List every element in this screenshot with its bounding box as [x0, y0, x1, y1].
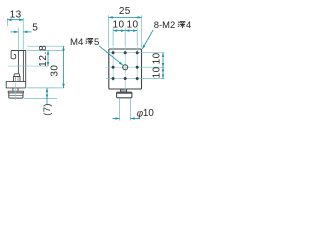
M2 hole top-center — [124, 51, 127, 54]
side view: knob axis centerline — [14, 83, 16, 101]
M2 hole mid-left — [112, 66, 115, 69]
front view: knob body — [117, 92, 132, 98]
dimension 10/10 top: right segment with arrows — [125, 30, 137, 32]
dimension 10/10 right: extension lines — [143, 53, 165, 79]
leader line for M4 tapped hole — [99, 46, 123, 65]
side view: clamp bolt head dome — [14, 74, 19, 77]
leader line for 8-M2 tapped holes — [142, 30, 153, 49]
dimension 30: dimension line with arrows — [63, 46, 65, 88]
side view: knob body — [9, 93, 23, 98]
dimension 12.8: top extension line — [27, 50, 64, 52]
side view: plate rear face edge — [22, 51, 24, 82]
svg-text:M4: M4 — [70, 37, 84, 48]
dimension 5: right outside arrow and leader to text — [23, 31, 31, 33]
M2 hole top-left — [112, 51, 115, 54]
dimension phi10: extension lines — [120, 98, 131, 120]
dimension 25: dimension line with arrows — [109, 16, 142, 18]
dimension phi10: left outside arrow — [112, 118, 119, 120]
label M4 depth 5 — [70, 37, 99, 48]
svg-text:10: 10 — [113, 20, 125, 31]
M4 center hole circle — [123, 65, 128, 70]
dimension 10/10 top: extension lines — [113, 28, 137, 46]
side view: knob flange — [8, 91, 23, 93]
side view: M4 hole axis centerline — [8, 65, 49, 67]
side view: base block outline — [6, 82, 26, 88]
side view: knob knurl line — [9, 94, 23, 96]
dimension (7): leader to text — [46, 99, 48, 105]
dimension 13: dimension line with arrows — [7, 19, 23, 21]
dimension 10/10 right: upper segment with arrows — [162, 53, 164, 67]
M2 hole bottom-right — [136, 77, 139, 80]
dimension 30: extension lines — [27, 46, 64, 88]
dimension text phi10 — [137, 108, 155, 119]
svg-text:10: 10 — [127, 20, 139, 31]
dimension 10/10 right: lower segment with arrows — [162, 67, 164, 78]
dimension 5: extension lines — [17, 28, 19, 50]
svg-text:10: 10 — [151, 52, 162, 64]
svg-text:12.8: 12.8 — [38, 45, 49, 67]
svg-text:10: 10 — [151, 66, 162, 78]
front view: hole column centerlines — [113, 47, 137, 92]
M2 hole bottom-left — [112, 77, 115, 80]
front view: knob neck — [121, 89, 127, 92]
front view: knob top band — [117, 93, 132, 94]
dimension 5: left outside arrow — [11, 31, 19, 33]
svg-text:25: 25 — [119, 6, 131, 17]
side view: plate front face edge — [17, 51, 19, 74]
dimension (7): bottom extension line — [24, 98, 57, 100]
front view: plate square outline — [109, 49, 142, 89]
side view: knob neck — [13, 88, 18, 91]
svg-text:10: 10 — [143, 108, 154, 119]
side view: right wall of body — [25, 51, 27, 88]
side view: clamp bolt hex facet lines — [16, 77, 19, 82]
M2 hole mid-right — [136, 66, 139, 69]
dimension 25: extension lines — [109, 15, 142, 47]
M2 hole top-right — [136, 51, 139, 54]
label 8-M2 depth 4 — [154, 19, 191, 30]
dimension phi10: right outside arrow and tail — [131, 118, 141, 120]
svg-text:4: 4 — [186, 19, 191, 30]
svg-text:5: 5 — [32, 23, 38, 34]
dimension 13: extension lines — [7, 18, 23, 50]
svg-text:30: 30 — [50, 65, 61, 77]
front view: hole row centerlines — [106, 53, 145, 79]
M2 hole bottom-center — [124, 77, 127, 80]
svg-text:13: 13 — [10, 10, 22, 21]
svg-text:(7): (7) — [41, 103, 52, 116]
side view: clamp bolt hex body — [14, 77, 21, 82]
dimension 12.8: dimension line with arrows — [47, 51, 49, 67]
dimension 10/10 top: left segment with arrows — [113, 30, 125, 32]
svg-text:5: 5 — [94, 37, 99, 48]
dimension (7): dimension line with arrows — [46, 88, 48, 99]
side view: top edge and hook lip of clamp block — [11, 51, 26, 59]
svg-text:8-M2: 8-M2 — [154, 19, 175, 30]
